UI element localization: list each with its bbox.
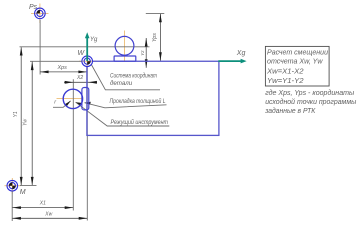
extension line below Ps	[39, 20, 41, 75]
svg-text:M: M	[20, 189, 26, 196]
svg-text:отсчета Xw, Yw: отсчета Xw, Yw	[267, 57, 323, 66]
svg-text:детали: детали	[110, 80, 133, 87]
svg-text:Yw=Y1-Y2: Yw=Y1-Y2	[267, 76, 304, 85]
svg-text:Расчет смещении: Расчет смещении	[267, 47, 328, 56]
datum symbol W	[78, 50, 93, 66]
extension line through tool centre	[72, 79, 74, 210]
leader line with arrow to label "Прокладка толщиной L"	[85, 102, 167, 108]
tool horizontal axis (orange)	[57, 97, 83, 99]
top tick line of Yps dimension	[146, 13, 165, 15]
svg-text:Y1: Y1	[13, 111, 19, 117]
coordinate axis arrow Xg (green)	[218, 50, 246, 64]
construction line at part surface level left of W	[30, 60, 87, 62]
svg-text:Прокладка толщиной L: Прокладка толщиной L	[110, 98, 166, 105]
centerline cross of point Ps (orange)	[31, 4, 49, 24]
callout text: Система координат детали	[110, 72, 157, 87]
svg-text:Xw=X1-X2: Xw=X1-X2	[266, 67, 304, 76]
probe ball	[115, 36, 134, 55]
svg-text:Yw: Yw	[23, 119, 29, 126]
extension line below M	[11, 192, 13, 222]
svg-text:Режущий инструмент: Режущий инструмент	[111, 118, 169, 126]
datum symbol Ps	[29, 4, 45, 19]
coordinate axis arrow Yg (green)	[85, 32, 98, 61]
cutting tool circle	[63, 89, 82, 108]
dimension Xps (horizontal, Ps to W)	[40, 65, 87, 73]
svg-text:Xw: Xw	[44, 211, 52, 217]
dimension Yps (vertical)	[152, 14, 162, 61]
note box frame	[265, 46, 329, 86]
svg-text:где Xps, Yps - координаты: где Xps, Yps - координаты	[265, 88, 355, 97]
svg-text:Yz: Yz	[140, 50, 146, 56]
construction line at M level	[20, 184, 37, 186]
dimension Y1 (vertical, M to probe level)	[13, 47, 22, 185]
centerline cross of point M (orange)	[5, 178, 21, 194]
svg-text:Yps: Yps	[152, 33, 158, 42]
note box text	[266, 47, 328, 84]
dimension Yz (vertical, ball centre to surface, outside arrows)	[140, 38, 148, 68]
svg-text:Система координат: Система координат	[110, 72, 157, 79]
gasket plate of thickness L	[82, 88, 89, 110]
leader line with arrow to label "Режущий инструмент"	[76, 102, 170, 126]
workpiece (part) rectangle	[87, 61, 219, 135]
svg-text:X1: X1	[39, 200, 46, 206]
svg-text:Yg: Yg	[90, 37, 98, 43]
radius leader r of tool	[53, 99, 71, 107]
dimension Xw (horizontal, M to W)	[12, 211, 87, 219]
probe ball vertical axis (orange)	[124, 31, 126, 62]
leader line to label "Система координат детали"	[91, 63, 161, 90]
svg-text:Xps: Xps	[57, 65, 68, 71]
svg-text:Ps: Ps	[29, 4, 38, 11]
datum symbol M	[7, 180, 26, 196]
svg-text:исходной точки программы: исходной точки программы	[265, 97, 357, 106]
construction line at probe ball centre level y=47	[20, 46, 150, 48]
probe pedestal	[114, 56, 136, 61]
svg-text:X2: X2	[76, 75, 83, 81]
svg-text:Xg: Xg	[236, 50, 246, 57]
svg-text:заданные в РТК: заданные в РТК	[264, 106, 316, 115]
centerline cross of point W (orange)	[79, 53, 97, 70]
dimension X1 (horizontal, M to tool centre)	[12, 200, 73, 209]
extension line below W	[86, 67, 88, 221]
dimension X2 (horizontal, tool centre to part edge, outside arrows)	[64, 75, 97, 84]
note text below box	[264, 88, 357, 115]
dimension Yw (vertical, M to part surface)	[23, 62, 34, 186]
